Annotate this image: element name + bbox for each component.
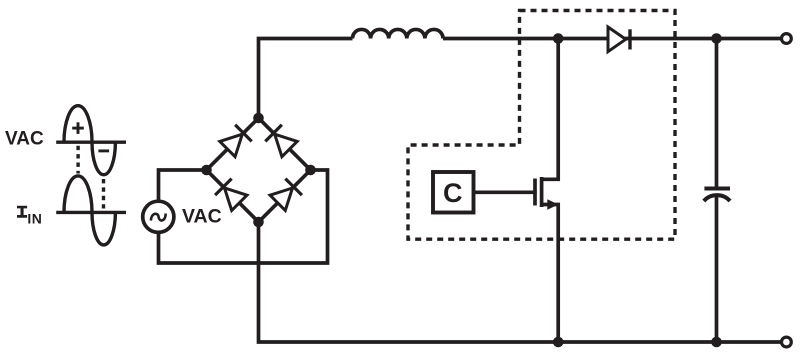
svg-text:VAC: VAC (5, 129, 44, 150)
svg-text:C: C (443, 178, 463, 208)
svg-text:IN: IN (27, 210, 42, 226)
svg-text:VAC: VAC (182, 205, 222, 227)
